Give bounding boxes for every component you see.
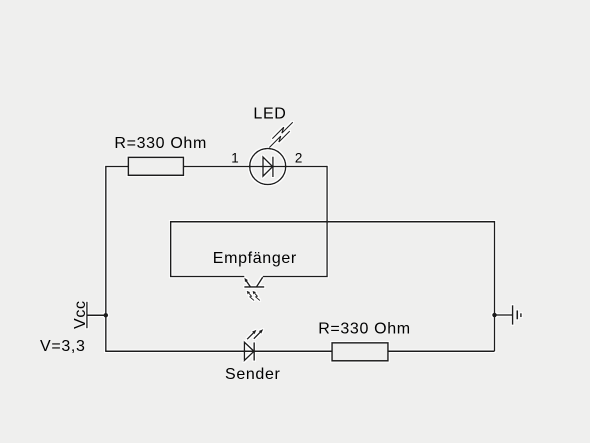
svg-text:LED: LED (253, 105, 286, 122)
svg-text:2: 2 (295, 150, 302, 165)
box Empfänger U1 (bottom edge notched for phototransistor) (171, 222, 327, 277)
ground symbol stub wire (495, 314, 513, 316)
svg-text:Vcc: Vcc (72, 300, 89, 329)
supply symbol Vcc stub wire (87, 314, 106, 316)
LED D1 light ray bolt lower (269, 131, 290, 148)
resistor R1 body (128, 157, 183, 175)
svg-text:Empfänger: Empfänger (213, 250, 297, 267)
svg-text:1: 1 (231, 150, 238, 165)
phototransistor emitter arrowhead (244, 278, 248, 282)
ground symbol bar 2 (516, 310, 518, 319)
wire left rail (Vcc net) with top-left corner (106, 167, 129, 352)
phototransistor incoming light bolt left (249, 293, 254, 300)
LED D2 Sender cathode bar (253, 342, 255, 360)
LED D2 Sender anode triangle (244, 342, 254, 360)
phototransistor base bar (244, 286, 264, 288)
wire vertical drop from LED pin 2 net down to Empfänger box (326, 166, 328, 222)
junction dot Vcc node (104, 313, 109, 318)
LED D1 anode triangle (263, 157, 273, 176)
svg-text:V=3,3: V=3,3 (40, 338, 86, 355)
phototransistor collector line (257, 277, 263, 287)
ground symbol bar 1 (512, 305, 514, 325)
LED D1 circle (250, 149, 286, 185)
LED D1 cathode bar (272, 157, 274, 177)
junction dot GND node (492, 313, 497, 318)
svg-text:R=330 Ohm: R=330 Ohm (114, 135, 207, 152)
supply symbol Vcc bar (86, 302, 88, 329)
wire resistor R1 to LED and on to corner (183, 166, 327, 168)
LED D1 light ray bolt upper (272, 122, 293, 139)
ground symbol bar 3 (520, 313, 522, 317)
LED D2 Sender emitted light arrow right (254, 332, 260, 339)
LED D2 Sender emitted light arrow left (247, 333, 254, 340)
resistor R2 body (332, 343, 388, 361)
wire bottom rail (105, 350, 494, 352)
phototransistor incoming light bolt right (255, 293, 260, 300)
svg-text:R=330 Ohm: R=330 Ohm (318, 321, 411, 338)
phototransistor emitter line (246, 280, 251, 287)
wire Empfänger top edge to right rail and down (GND net) (327, 222, 494, 352)
svg-text:Sender: Sender (225, 366, 281, 383)
